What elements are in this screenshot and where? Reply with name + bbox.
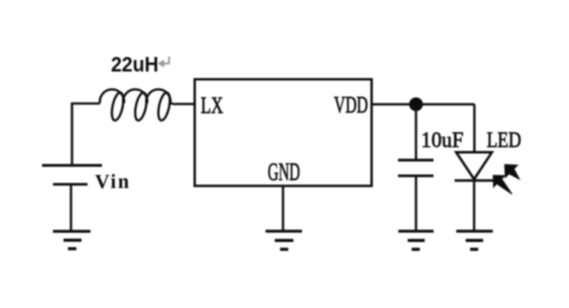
svg-text:10uF: 10uF — [421, 127, 464, 152]
svg-text:LED: LED — [487, 127, 522, 152]
svg-text:22uH: 22uH — [111, 53, 159, 77]
svg-text:GND: GND — [268, 159, 300, 186]
svg-text:Vin: Vin — [95, 171, 129, 193]
svg-text:VDD: VDD — [334, 92, 368, 117]
svg-text:LX: LX — [201, 93, 224, 118]
